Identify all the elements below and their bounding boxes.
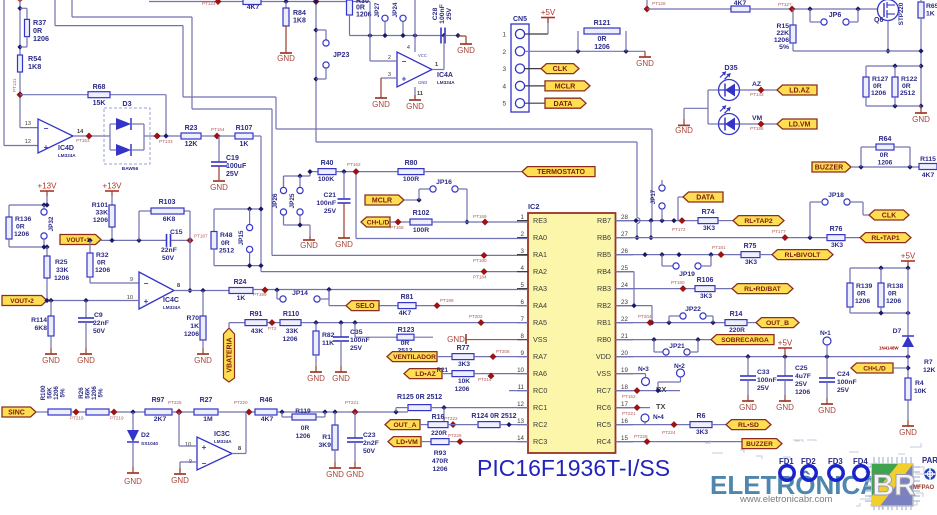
svg-text:SS1040: SS1040 [141,441,158,447]
svg-text:R125 0R 2512: R125 0R 2512 [397,394,442,401]
svg-text:0R: 0R [356,5,365,12]
svg-text:6K8: 6K8 [35,325,48,332]
svg-text:220R: 220R [729,327,745,334]
svg-text:100K: 100K [318,176,334,183]
svg-text:33K: 33K [286,328,299,335]
svg-text:R1: R1 [322,434,331,441]
svg-text:PT221: PT221 [345,400,359,405]
svg-text:PT226: PT226 [448,433,462,438]
svg-text:RA6: RA6 [533,369,547,378]
svg-text:+: + [44,143,49,152]
svg-text:GND: GND [447,335,465,344]
svg-text:0R: 0R [16,224,25,231]
svg-text:R15: R15 [777,23,790,30]
svg-text:IC4A: IC4A [437,72,453,79]
svg-text:2512: 2512 [900,90,915,97]
svg-text:JP17: JP17 [650,189,657,204]
svg-text:GND: GND [277,54,295,63]
svg-text:25V: 25V [324,208,337,215]
svg-text:GND: GND [42,356,60,365]
svg-text:8: 8 [521,333,525,340]
svg-text:1206: 1206 [54,275,69,282]
svg-text:RL▪BIVOLT: RL▪BIVOLT [785,252,822,259]
svg-text:RB2: RB2 [597,301,611,310]
svg-text:GND: GND [899,428,917,437]
svg-text:1206: 1206 [282,336,297,343]
svg-text:R64: R64 [879,136,892,143]
svg-text:+5V: +5V [901,252,916,261]
svg-text:GND: GND [372,100,390,109]
svg-text:1K: 1K [190,323,199,330]
svg-text:2n2F: 2n2F [363,440,379,447]
svg-text:LM324A: LM324A [163,305,181,310]
svg-text:GND: GND [335,240,353,249]
svg-text:GND: GND [675,126,693,135]
svg-text:R70: R70 [187,315,200,322]
svg-text:PT172: PT172 [672,227,686,232]
svg-text:LM324A: LM324A [437,80,455,85]
svg-text:25V: 25V [350,345,363,352]
svg-text:PT156: PT156 [750,126,764,131]
svg-text:GND: GND [77,356,95,365]
svg-text:13: 13 [25,121,31,127]
svg-text:0R: 0R [97,260,106,267]
svg-text:PT187: PT187 [194,234,208,239]
svg-text:−: − [44,124,49,133]
svg-text:R138: R138 [887,283,903,290]
svg-text:50V: 50V [363,448,376,455]
svg-text:JP16: JP16 [436,179,452,186]
svg-text:C24: C24 [837,371,850,378]
svg-text:RA2: RA2 [533,267,547,276]
svg-text:PT154: PT154 [211,127,225,132]
svg-text:0R: 0R [598,36,607,43]
svg-text:JP18: JP18 [828,192,844,199]
svg-text:C28: C28 [432,8,439,21]
svg-text:RC2: RC2 [533,420,547,429]
svg-text:LD.AZ: LD.AZ [789,88,810,95]
svg-text:1K: 1K [240,141,249,148]
svg-text:R75: R75 [744,243,757,250]
svg-text:Q6: Q6 [874,17,883,24]
svg-text:CH▪L/D: CH▪L/D [367,220,390,227]
svg-text:GND: GND [418,80,427,85]
svg-text:RC4: RC4 [597,437,611,446]
svg-text:RE3: RE3 [533,216,547,225]
svg-text:N▪4: N▪4 [653,414,664,421]
svg-text:GND: GND [776,403,794,412]
svg-text:5: 5 [502,101,506,108]
svg-text:100R: 100R [413,227,429,234]
svg-text:N▪1: N▪1 [820,330,831,337]
svg-text:PT190: PT190 [671,280,685,285]
svg-text:SOBRECARGA: SOBRECARGA [721,337,769,344]
svg-text:R91: R91 [250,311,263,318]
svg-text:3K9: 3K9 [319,442,332,449]
svg-text:VSS: VSS [597,369,612,378]
svg-text:1206: 1206 [795,389,810,396]
svg-text:3: 3 [502,66,506,73]
svg-text:R82: R82 [322,332,335,339]
svg-text:R6: R6 [697,413,706,420]
svg-text:+: + [402,75,407,84]
svg-text:CH▪L/D: CH▪L/D [863,366,886,373]
svg-text:R76: R76 [830,226,843,233]
svg-text:PT199: PT199 [253,292,267,297]
svg-text:VSS: VSS [533,335,548,344]
svg-text:JP25: JP25 [289,193,296,208]
svg-text:PT198: PT198 [440,298,454,303]
svg-text:1206: 1206 [33,34,49,43]
svg-text:PT202: PT202 [469,314,483,319]
svg-text:1206: 1206 [774,37,789,44]
svg-text:JP32: JP32 [48,216,55,231]
svg-text:4: 4 [407,45,410,51]
svg-text:3K3: 3K3 [831,242,843,249]
svg-text:3: 3 [388,72,391,78]
svg-text:SELO: SELO [355,303,375,310]
svg-text:MFPAO: MFPAO [913,485,935,491]
svg-text:IC2: IC2 [528,202,540,211]
svg-text:GND: GND [210,183,228,192]
svg-text:R25: R25 [55,259,68,266]
svg-text:1206: 1206 [432,466,447,473]
svg-text:R102: R102 [413,210,430,217]
svg-text:RC1: RC1 [533,403,547,412]
svg-text:1206: 1206 [14,231,29,238]
svg-text:C21: C21 [324,192,337,199]
svg-text:470R: 470R [432,458,448,465]
svg-text:RC7: RC7 [597,386,611,395]
svg-text:10K: 10K [458,378,470,385]
svg-text:22nF: 22nF [161,247,177,254]
svg-text:R14: R14 [730,311,743,318]
svg-text:RA4: RA4 [533,301,547,310]
svg-text:PT222: PT222 [444,416,458,421]
svg-text:PT169: PT169 [473,214,487,219]
svg-text:GND: GND [636,59,654,68]
svg-text:JP21: JP21 [669,343,685,350]
svg-text:RC6: RC6 [597,403,611,412]
svg-text:25V: 25V [446,7,453,20]
svg-text:1K8: 1K8 [28,62,41,71]
svg-text:1: 1 [502,32,506,39]
svg-text:www.eletronicabr.com: www.eletronicabr.com [739,494,832,505]
svg-text:C33: C33 [757,369,770,376]
svg-text:PT228: PT228 [634,434,648,439]
svg-text:100nF: 100nF [350,337,370,344]
svg-text:GND: GND [307,374,325,383]
svg-text:PT2: PT2 [268,326,277,331]
svg-text:2: 2 [388,55,391,61]
svg-text:MCLR: MCLR [555,82,577,91]
svg-text:R127: R127 [872,76,888,83]
svg-text:R110: R110 [283,311,299,318]
svg-text:JP6: JP6 [829,12,842,19]
svg-text:4: 4 [502,83,506,90]
svg-text:PT221: PT221 [622,411,636,416]
svg-text:BUZZER: BUZZER [815,165,843,172]
svg-text:PT224: PT224 [662,430,676,435]
svg-text:10K: 10K [914,388,927,395]
svg-text:DATA: DATA [696,195,714,202]
svg-text:PT152: PT152 [622,394,636,399]
svg-text:IC3C: IC3C [214,431,230,438]
svg-text:GND: GND [406,102,424,111]
svg-text:IC4D: IC4D [58,145,74,152]
svg-text:2K7: 2K7 [154,416,167,423]
svg-text:2: 2 [502,49,506,56]
svg-text:D3: D3 [122,99,131,108]
svg-text:8: 8 [238,446,241,452]
svg-text:3: 3 [521,248,525,255]
svg-text:R65: R65 [926,3,937,10]
svg-text:0R: 0R [880,152,889,159]
svg-text:R115: R115 [920,156,936,163]
svg-text:+13V: +13V [103,182,123,191]
svg-text:PT220: PT220 [234,400,248,405]
svg-text:3K3: 3K3 [745,259,757,266]
svg-text:RB6: RB6 [597,233,611,242]
svg-text:R23: R23 [185,125,198,132]
svg-text:RB7: RB7 [597,216,611,225]
svg-text:R136: R136 [15,216,31,223]
svg-text:RB5: RB5 [597,250,611,259]
svg-text:1K: 1K [926,11,935,18]
svg-text:R81: R81 [401,294,414,301]
svg-text:5%: 5% [60,388,67,397]
svg-text:MCLR: MCLR [372,198,392,205]
svg-text:9: 9 [130,277,133,283]
svg-text:VCC: VCC [418,53,427,58]
svg-text:TERMOSTATO: TERMOSTATO [537,169,585,176]
svg-text:C15: C15 [170,229,183,236]
svg-text:1206: 1206 [184,331,199,338]
svg-text:PT162: PT162 [347,162,361,167]
svg-text:R68: R68 [93,84,106,91]
svg-text:1206: 1206 [296,433,311,440]
svg-text:0R: 0R [888,291,897,298]
svg-text:C25: C25 [795,365,808,372]
svg-text:R21: R21 [437,367,449,374]
svg-text:+5V: +5V [778,339,793,348]
svg-text:PT204: PT204 [638,314,652,319]
svg-text:R40: R40 [321,160,334,167]
svg-text:PT218: PT218 [70,416,84,421]
svg-text:AZ: AZ [752,81,761,88]
svg-text:R122: R122 [901,76,917,83]
svg-text:3K3: 3K3 [458,361,470,368]
svg-text:1N4148W: 1N4148W [879,346,899,351]
svg-text:11: 11 [417,91,423,97]
svg-text:R80: R80 [405,160,418,167]
svg-text:BR: BR [872,469,916,502]
svg-text:12K: 12K [923,367,936,374]
svg-text:12: 12 [25,139,31,145]
svg-text:R123: R123 [398,327,415,334]
svg-text:GND: GND [818,406,836,415]
svg-text:LM324A: LM324A [58,153,76,158]
svg-text:PT153: PT153 [76,138,90,143]
svg-text:PT124: PT124 [202,1,216,6]
svg-text:1K8: 1K8 [293,18,306,25]
svg-text:8: 8 [177,283,180,289]
svg-text:JP23: JP23 [333,52,349,59]
svg-text:4K7: 4K7 [247,4,260,11]
svg-text:R77: R77 [457,345,470,352]
svg-text:TX: TX [656,402,666,411]
svg-text:PT168: PT168 [390,225,404,230]
svg-text:11K: 11K [322,340,334,347]
svg-text:5: 5 [521,282,525,289]
svg-text:JP19: JP19 [679,271,695,278]
svg-text:GND: GND [194,356,212,365]
svg-text:R107: R107 [236,125,253,132]
svg-text:43K: 43K [251,328,264,335]
svg-text:LD▪VM: LD▪VM [396,439,418,446]
svg-text:JP24: JP24 [392,2,399,17]
svg-text:R103: R103 [159,199,176,206]
svg-text:1206: 1206 [455,386,470,393]
svg-text:GND: GND [124,477,142,486]
svg-text:3K3: 3K3 [700,293,712,300]
svg-text:PT184: PT184 [473,275,487,280]
svg-text:VENTILADOR: VENTILADOR [393,354,436,361]
svg-text:0R: 0R [221,240,230,247]
svg-text:STP220: STP220 [898,2,905,25]
svg-text:3K3: 3K3 [696,429,708,436]
svg-text:0R: 0R [873,83,882,90]
svg-text:4: 4 [521,265,525,272]
svg-text:R124 0R 2512: R124 0R 2512 [471,413,516,420]
svg-text:4K7: 4K7 [399,310,412,317]
svg-text:R119: R119 [295,408,311,415]
svg-text:1: 1 [521,214,525,221]
svg-text:JP22: JP22 [685,306,701,313]
svg-text:C23: C23 [363,432,376,439]
svg-text:4u7F: 4u7F [795,373,811,380]
svg-text:JP15: JP15 [238,230,245,245]
svg-text:−: − [202,459,207,468]
svg-text:RC0: RC0 [533,386,547,395]
svg-text:14: 14 [77,129,84,135]
svg-text:RA0: RA0 [533,233,547,242]
svg-text:PT180: PT180 [473,258,487,263]
svg-text:RA5: RA5 [533,318,547,327]
svg-text:22K: 22K [777,30,790,37]
svg-text:5%: 5% [98,388,105,397]
svg-text:RA7: RA7 [533,352,547,361]
svg-text:R48: R48 [220,232,233,239]
svg-text:100nF: 100nF [439,4,446,24]
svg-text:1K: 1K [237,295,246,302]
svg-text:0R: 0R [902,83,911,90]
svg-text:PT133: PT133 [159,139,173,144]
svg-text:DATA: DATA [554,99,573,108]
svg-text:4K7: 4K7 [734,0,747,7]
svg-text:PT143: PT143 [750,92,764,97]
svg-text:PT126: PT126 [652,1,666,6]
svg-text:1206: 1206 [886,298,901,305]
svg-text:GND: GND [326,470,344,479]
svg-text:VBATERIA: VBATERIA [227,337,234,372]
svg-text:1206: 1206 [878,160,893,167]
svg-text:50V: 50V [93,328,106,335]
svg-text:2: 2 [521,231,525,238]
svg-text:PT127: PT127 [778,2,792,7]
svg-text:50V: 50V [162,255,175,262]
svg-text:R106: R106 [697,277,714,284]
svg-text:0R: 0R [301,425,310,432]
svg-text:4K7: 4K7 [261,416,274,423]
svg-text:R121: R121 [594,20,611,27]
svg-text:22nF: 22nF [93,320,109,327]
svg-text:100nF: 100nF [837,379,857,386]
svg-text:PT219: PT219 [110,416,124,421]
svg-text:25V: 25V [757,385,770,392]
svg-text:D2: D2 [141,432,150,439]
svg-text:RB0: RB0 [597,335,611,344]
svg-text:0R: 0R [857,291,866,298]
svg-text:RC3: RC3 [533,437,547,446]
svg-text:BAW56: BAW56 [122,166,139,172]
svg-text:R84: R84 [293,10,306,17]
svg-text:220R: 220R [431,430,447,437]
svg-text:1: 1 [435,62,438,68]
svg-text:RB3: RB3 [597,284,611,293]
svg-text:R101: R101 [92,202,108,209]
svg-text:JP26: JP26 [272,193,279,208]
svg-text:D35: D35 [724,63,737,72]
svg-text:12K: 12K [185,141,198,148]
svg-text:LD.VM: LD.VM [789,122,811,129]
svg-text:R4: R4 [915,380,924,387]
svg-text:100nF: 100nF [757,377,777,384]
svg-text:R7: R7 [924,359,933,366]
svg-text:SINC: SINC [8,410,25,417]
svg-text:+13V: +13V [38,182,58,191]
svg-text:10: 10 [185,442,191,448]
svg-text:GND: GND [912,115,930,124]
svg-text:1206: 1206 [855,298,870,305]
svg-text:JP14: JP14 [292,290,308,297]
svg-text:PIC16F1936T-I/SS: PIC16F1936T-I/SS [477,455,670,481]
svg-text:1206: 1206 [594,44,610,51]
svg-text:N▪3: N▪3 [638,366,649,373]
svg-text:RL▪TAP1: RL▪TAP1 [871,235,900,242]
svg-text:3K3: 3K3 [703,225,715,232]
svg-text:VOUT▪2: VOUT▪2 [10,298,34,305]
svg-text:RB1: RB1 [597,318,611,327]
svg-text:100nF: 100nF [316,200,336,207]
svg-text:RL▪RD/BAT: RL▪RD/BAT [744,286,781,293]
svg-text:D7: D7 [893,328,902,335]
svg-text:PT214: PT214 [478,377,492,382]
svg-text:R27: R27 [200,397,213,404]
svg-text:RC5: RC5 [597,420,611,429]
svg-text:1206: 1206 [356,12,372,19]
svg-text:PAR.: PAR. [922,456,937,465]
svg-text:R97: R97 [152,397,165,404]
svg-text:2512: 2512 [219,248,234,255]
svg-text:RA3: RA3 [533,284,547,293]
svg-text:VDD: VDD [596,352,611,361]
svg-text:R46: R46 [260,397,273,404]
svg-text:5%: 5% [779,44,789,51]
svg-text:GND: GND [457,46,475,55]
svg-text:BUZZER: BUZZER [746,441,773,448]
svg-text:+: + [144,297,149,306]
